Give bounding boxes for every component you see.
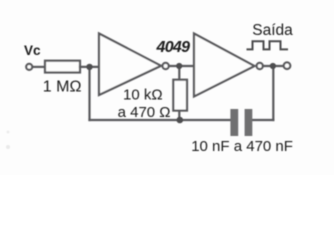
svg-text:Vc: Vc: [24, 43, 41, 58]
svg-text:4049: 4049: [156, 39, 191, 56]
svg-text:1 MΩ: 1 MΩ: [43, 79, 82, 96]
svg-text:Saída: Saída: [252, 22, 293, 39]
svg-text:a 470 Ω: a 470 Ω: [118, 104, 171, 121]
svg-text:10 kΩ: 10 kΩ: [123, 87, 163, 104]
svg-text:10 nF a 470 nF: 10 nF a 470 nF: [191, 138, 293, 155]
